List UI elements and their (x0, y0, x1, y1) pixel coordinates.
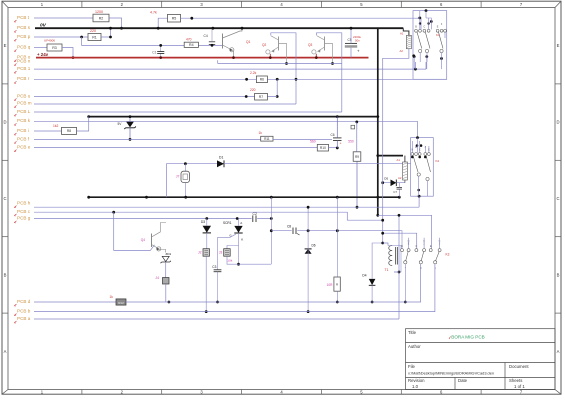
svg-text:T1: T1 (385, 268, 389, 272)
wire R9 to h row (356, 161, 358, 207)
wire J7 top (184, 164, 186, 172)
junction 308 on h row (307, 206, 310, 209)
junction PCB p branch (80, 36, 83, 39)
junction c row branch (112, 211, 115, 214)
wire PCB L row (34, 111, 342, 113)
relay K1 pin dots (413, 17, 443, 60)
svg-text:B: B (557, 272, 560, 277)
wire PCB k row (34, 120, 418, 122)
junction R3 on 24v (72, 56, 75, 59)
wire k row down to K2 (417, 121, 419, 137)
wire p branch to Q1 base (82, 37, 223, 45)
svg-text:PCB c: PCB c (17, 209, 31, 214)
junction bus3 start (87, 196, 90, 199)
contacts K3 stubs (409, 238, 440, 249)
svg-text:1200: 1200 (95, 10, 103, 14)
capacitor C4 (209, 42, 215, 45)
wire C5 to 0V (350, 28, 352, 43)
svg-text:Sheets: Sheets (509, 378, 522, 383)
junction R13 on d row (336, 301, 339, 304)
svg-text:R12: R12 (118, 301, 124, 305)
connector box J2 (203, 249, 210, 257)
wire zener to f row (129, 128, 131, 140)
junction T1 top node (381, 242, 384, 245)
wire D4 bottom to d row (371, 285, 373, 302)
svg-text:K: K (241, 237, 243, 241)
svg-text:K3: K3 (446, 252, 450, 256)
relay K2 pin wires (412, 138, 429, 197)
svg-text:C: C (416, 245, 418, 248)
svg-text:PCB L: PCB L (17, 109, 31, 114)
wire C4 up to 0V (211, 28, 213, 42)
wire K1 coil to T1 node (383, 49, 409, 243)
capacitor C7 (397, 187, 403, 189)
relay K2 pin dots (411, 144, 427, 197)
wire Q4 emitter to zener (160, 250, 166, 253)
junction Q2 emitter on 24v (269, 56, 272, 59)
vertical T1 to a row (398, 215, 400, 319)
junction g row end (270, 217, 273, 220)
junction R7 left (245, 95, 248, 98)
resistor R3 (47, 44, 62, 51)
resistor R7 (255, 93, 268, 100)
wire Q2 emitter to 24v (269, 54, 271, 58)
junction K1 top (425, 9, 428, 12)
wire D1 line left corner (167, 164, 218, 198)
resistor R1 (88, 33, 101, 40)
wire PCB h row (34, 206, 419, 208)
transformer T1 (389, 246, 392, 266)
junction C1 on base wire (159, 44, 162, 47)
junction zener on bus2 (129, 115, 132, 118)
connector box J3 (224, 249, 231, 257)
svg-text:File: File (408, 364, 416, 369)
svg-text:PCB d: PCB d (17, 299, 31, 304)
wire J2 down to b row (205, 256, 207, 311)
svg-text:D: D (556, 120, 559, 125)
svg-text:1k: 1k (259, 131, 263, 135)
wire PCB a row (34, 318, 399, 320)
svg-text:+: + (357, 48, 360, 53)
title block outline (406, 329, 556, 390)
svg-text:C: C (424, 26, 426, 29)
svg-text:Revision: Revision (408, 378, 425, 383)
contacts K3 (401, 249, 442, 264)
wire PCB r row (34, 78, 447, 80)
wire PCB p to R1 (34, 36, 88, 38)
junction R5 tap on 0V (157, 27, 160, 30)
svg-text:Q2: Q2 (262, 43, 266, 47)
svg-text:Title: Title (408, 330, 417, 335)
wire C7 top lead (398, 183, 400, 188)
wire R1 up to 0V (101, 28, 111, 37)
0V bus 2 (89, 116, 378, 118)
wire 0V to K1 coil (403, 28, 409, 35)
svg-text:10R: 10R (327, 283, 334, 287)
junction C4 on base wire (211, 44, 214, 47)
capacitor C8 (292, 227, 298, 234)
junction 308 on b row (307, 310, 310, 313)
svg-text:Date: Date (458, 378, 468, 383)
svg-text:+: + (340, 142, 342, 146)
junction C1 on 24v (159, 56, 162, 59)
svg-text:C1: C1 (152, 50, 156, 54)
transistor Q4 (151, 234, 153, 248)
svg-text:C6: C6 (331, 133, 335, 137)
wire Q3 emitter to 24v (315, 54, 317, 58)
PCB connector pin symbols (14, 20, 16, 323)
junction trunk bus3 (376, 196, 379, 199)
wire PCB f row (34, 138, 261, 140)
junction bus3 end (398, 196, 401, 199)
junction SCR on row264 (237, 263, 240, 266)
junction bus2 at C6 (336, 115, 339, 118)
wire k to R9 (356, 122, 358, 152)
junction trunk bus2 (376, 115, 379, 118)
wire Q1 emitter to 24v (233, 51, 235, 58)
zener diode D2 (126, 122, 134, 128)
junction zener on f row (129, 138, 132, 141)
svg-text:C: C (556, 196, 559, 201)
svg-text:220: 220 (250, 88, 256, 92)
junction bus2 start (87, 115, 90, 118)
capacitor C3 (214, 270, 222, 272)
capacitor C5 electrolytic (345, 42, 357, 44)
svg-text:4.7k: 4.7k (150, 11, 157, 15)
capacitor C6 (333, 138, 342, 141)
junction c staircase join (381, 219, 384, 222)
svg-text:R9: R9 (355, 155, 359, 159)
relay K1 contacts (415, 29, 447, 52)
wire C6 to e row (336, 141, 338, 148)
SCR1 thyristor (234, 226, 242, 233)
wire PCB 1 row (34, 68, 426, 70)
K2 coil link horizontal (378, 155, 403, 157)
junction pin7 on d row (404, 301, 407, 304)
frame zone letters (3, 43, 559, 354)
svg-text:A: A (240, 221, 242, 225)
Q2 feedback loop (271, 33, 296, 104)
junction C3 on d row (216, 301, 219, 304)
svg-text:+ 24v: + 24v (37, 52, 49, 57)
svg-text:R6: R6 (260, 78, 264, 82)
resistor R2 (93, 14, 109, 22)
wire D4 top to T1 node (372, 243, 383, 279)
connector box J4 (163, 278, 170, 285)
resistor R10 (317, 144, 328, 151)
svg-text:J4: J4 (155, 276, 159, 280)
wire c branch down to Q4 (114, 212, 155, 250)
wire PCB i to R8 (34, 130, 62, 132)
junction D4 on d row (371, 301, 374, 304)
junction R6 left (245, 78, 248, 81)
svg-text:R10: R10 (320, 146, 326, 150)
svg-text:B: B (4, 272, 7, 277)
svg-text:560: 560 (310, 140, 316, 144)
junction e row end (336, 147, 339, 150)
wire D3 to J2 (206, 233, 208, 249)
wire ZD1 down to J4 (165, 262, 167, 278)
junction R9 on h row (356, 206, 359, 209)
svg-text:PCB r: PCB r (17, 76, 30, 81)
relay K1 coil (406, 35, 411, 48)
junction C4 on 0V (212, 27, 215, 30)
svg-text:1k2: 1k2 (53, 124, 58, 128)
svg-text:PCB m: PCB m (17, 100, 32, 105)
junction K2 top (416, 136, 419, 139)
wire C4 down (211, 43, 213, 46)
junction Q3 base (331, 62, 334, 65)
relay K1 stub b (425, 62, 427, 69)
svg-text:D5: D5 (384, 177, 388, 181)
svg-text:1k: 1k (110, 295, 114, 299)
svg-text:2.2k: 2.2k (250, 71, 257, 75)
svg-text:A2: A2 (398, 176, 402, 180)
lamp box J7 (181, 171, 190, 182)
junction trunk K2 link (376, 154, 379, 157)
junction 399 top (398, 214, 401, 217)
svg-text:Q3: Q3 (308, 43, 312, 47)
svg-text:PCB u: PCB u (17, 93, 31, 98)
svg-text:PCB h: PCB h (17, 201, 31, 206)
PCB connector labels (17, 15, 32, 321)
svg-text:PCB 1: PCB 1 (17, 66, 31, 71)
wire PCB u row (34, 96, 277, 98)
wire SCR cathode to J3 (227, 233, 239, 264)
wire g row to D3 (206, 219, 208, 226)
zener diode ZD1 (162, 256, 169, 261)
wire D1 line right (224, 163, 411, 165)
frame zone ticks sides (2, 84, 561, 313)
capacitor C1 (160, 45, 162, 57)
wire PCB d row left (34, 301, 116, 303)
testpoint symbol (351, 125, 355, 129)
wire SCR anode to g row (238, 219, 240, 226)
transistor Q2 (278, 37, 280, 51)
wire row 230 (271, 231, 402, 249)
wire trunk end to contacts (378, 215, 432, 248)
svg-text:R1: R1 (92, 35, 97, 39)
junction T1 bottom node (398, 271, 401, 274)
wire f row right (273, 138, 332, 140)
wire R2 down to 0V (109, 18, 122, 28)
junction R1 right (109, 36, 112, 39)
svg-text:ZD1: ZD1 (166, 252, 172, 256)
junction row230 at 337 (336, 229, 339, 232)
vertical join R6 R7 (276, 79, 278, 96)
resistor R13 vertical (334, 277, 340, 291)
wire D5 line (383, 182, 405, 184)
Q3 feedback loop (317, 33, 342, 112)
diode D5 (391, 180, 397, 187)
resistor R11 (261, 136, 273, 141)
wire R3 down to 24v (62, 48, 73, 58)
diode D6 (305, 249, 312, 254)
svg-text:PCB p: PCB p (17, 34, 31, 39)
junction Q1 emitter on 24v (232, 56, 235, 59)
svg-text:A1: A1 (397, 158, 401, 162)
junction J7 on bus3 (184, 196, 187, 199)
0V trunk vertical (377, 28, 379, 215)
0V bus 3 (89, 196, 400, 198)
resistor R8 (62, 127, 77, 134)
resistor R5 (168, 14, 181, 22)
svg-text:PCB t: PCB t (17, 15, 30, 20)
wire J3 down to row264 (227, 256, 271, 264)
wire Q1 collector to 0V (240, 28, 242, 31)
svg-text:J2: J2 (198, 250, 202, 254)
frame zone ticks top and bottom (82, 1, 481, 394)
24v bus (36, 57, 369, 59)
base feed line (218, 60, 342, 63)
junction bus3 at 337 (336, 196, 339, 199)
junction R7 right (276, 95, 279, 98)
svg-text:PCB i: PCB i (17, 128, 29, 133)
svg-text:220: 220 (90, 29, 96, 33)
junction SCR on g row (236, 217, 239, 220)
junction R1 on 0V (109, 27, 112, 30)
svg-text:D: D (3, 120, 6, 125)
svg-text:E: E (557, 43, 560, 48)
capacitor C2 (252, 215, 258, 222)
relay K1 pin wires (414, 11, 445, 70)
transistor Q3 (324, 37, 326, 51)
svg-text:A: A (4, 349, 7, 354)
svg-text:PCB a: PCB a (17, 316, 31, 321)
wire C5 to 24v (350, 48, 352, 58)
wire PCB q to R3 (34, 47, 47, 49)
title block labels (408, 330, 529, 389)
junction C5 on 0V (350, 27, 353, 30)
svg-text:PCB g: PCB g (17, 216, 31, 221)
svg-text:D6: D6 (312, 244, 316, 248)
svg-text:R11: R11 (264, 137, 270, 141)
wire R13 to d row (336, 291, 338, 302)
junction loop on r row (295, 78, 298, 81)
svg-text:R4: R4 (189, 43, 194, 47)
svg-text:J7: J7 (176, 175, 180, 179)
wire T1 bottom out (394, 271, 399, 273)
svg-text:J3: J3 (219, 250, 223, 254)
0V bus (35, 27, 403, 29)
junction R6 right (276, 78, 279, 81)
junction J2 on b row (205, 310, 208, 313)
svg-text:SCR1: SCR1 (223, 221, 232, 225)
junction Q2 base (285, 62, 288, 65)
svg-text:50v: 50v (355, 38, 360, 42)
svg-text:E: E (4, 43, 7, 48)
svg-text:PCB n: PCB n (17, 58, 31, 63)
svg-text:K1: K1 (436, 33, 440, 37)
wire zener to bus2 (129, 117, 131, 122)
svg-text:A1: A1 (400, 32, 404, 36)
svg-text:PCB e: PCB e (17, 145, 31, 150)
junction row1 stub a (414, 68, 417, 71)
svg-text:PCB b: PCB b (17, 309, 31, 314)
svg-text:PCB k: PCB k (17, 118, 31, 123)
svg-text:A2: A2 (400, 49, 404, 53)
wire J7 bottom to bus3 (184, 183, 186, 198)
svg-text:C3: C3 (212, 265, 216, 269)
svg-text:470: 470 (186, 38, 192, 42)
wire bus2 to C6 (336, 117, 338, 138)
svg-text:550: 550 (348, 140, 354, 144)
svg-text:C4: C4 (204, 34, 208, 38)
svg-text:R7: R7 (259, 95, 263, 99)
svg-text:Author: Author (408, 344, 421, 349)
diode D3 (203, 226, 211, 233)
wire pin7 to d row (404, 264, 406, 302)
svg-text:PCB s: PCB s (17, 25, 31, 30)
wire C7 bottom lead (398, 189, 400, 197)
junction J7 on D1 line (184, 162, 187, 165)
resistor R12 (116, 299, 126, 305)
svg-text:Q4: Q4 (141, 238, 145, 242)
wire 0V tap to R5 (158, 18, 167, 28)
wire PCB d row right (126, 264, 421, 302)
wire PCB b row (34, 264, 435, 312)
vertical 308 (307, 207, 309, 311)
junction c staircase leave (381, 232, 384, 235)
svg-text:C7: C7 (393, 190, 397, 194)
wire R8 up to bus2 (77, 117, 89, 131)
svg-text:C8: C8 (287, 224, 291, 228)
svg-text:R5: R5 (172, 17, 177, 21)
wire SCR gate (218, 234, 236, 270)
junction D5 on 382 line (381, 181, 384, 184)
wire T1 frame (388, 246, 401, 273)
svg-text:D4: D4 (362, 273, 366, 277)
diode D1 (217, 160, 224, 167)
wire C3 to d row (217, 272, 219, 302)
wire K2 coil bottom (404, 180, 406, 183)
diode D4 (369, 279, 376, 285)
junction row230 at 308 (307, 229, 310, 232)
junction k row testpoint (355, 121, 358, 124)
relay K1 outline (413, 11, 447, 80)
svg-text:K2: K2 (436, 159, 440, 163)
relay K2 coil (403, 162, 408, 180)
svg-text:R3: R3 (52, 46, 57, 50)
svg-text:10k: 10k (227, 259, 232, 263)
junction Q3 emitter on 24v (315, 56, 318, 59)
relay K2 contacts (411, 153, 431, 181)
junction bus3 at 271 (270, 196, 273, 199)
wire 337 down to R13 (336, 197, 338, 277)
wire PCB m row (34, 103, 296, 105)
svg-text:BORA MIG PCB: BORA MIG PCB (451, 335, 484, 340)
svg-text:PCB f: PCB f (17, 136, 30, 141)
svg-text:1.0: 1.0 (412, 384, 419, 389)
junction J4 on d row (168, 301, 171, 304)
resistor R4 (184, 42, 198, 47)
wire PCB c row staircase (34, 212, 417, 248)
junction Q1 collector on 0V (241, 27, 244, 30)
wire PCB e row (34, 147, 317, 149)
wire PCB t to R2 (34, 17, 93, 19)
svg-text:Document: Document (509, 364, 529, 369)
resistor R9 (353, 152, 361, 162)
wire K2 coil top (404, 156, 406, 162)
wire K2 bottom to h row (418, 196, 420, 207)
resistor R6 (256, 76, 267, 83)
svg-text:R2: R2 (99, 16, 104, 20)
wire PCB g row (34, 218, 271, 220)
wire J4 to d row (165, 284, 167, 302)
svg-text:D1: D1 (219, 156, 223, 160)
wire Q4 collector (161, 223, 167, 232)
svg-text:PCB q: PCB q (17, 44, 31, 49)
